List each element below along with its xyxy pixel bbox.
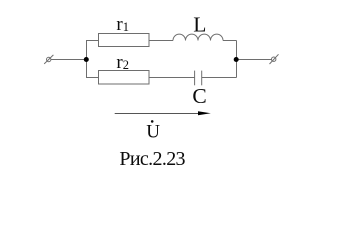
- wire right node to terminal: [236, 59, 272, 61]
- terminal right: [272, 57, 276, 61]
- wire right vertical top: [236, 41, 238, 60]
- wire node to r1: [86, 40, 99, 42]
- wire node to r2: [86, 77, 99, 79]
- inductor L: [173, 34, 223, 40]
- wire left terminal to left node: [51, 59, 87, 61]
- wire left vertical branch split: [86, 41, 88, 78]
- svg-text:C: C: [192, 84, 206, 108]
- wire C to right corner: [202, 77, 237, 79]
- wire r1 to L: [149, 40, 173, 42]
- svg-text:Рис.2.23: Рис.2.23: [119, 148, 185, 170]
- resistor r2: [99, 71, 150, 85]
- terminal left: [47, 57, 51, 61]
- node right junction: [234, 57, 239, 62]
- capacitor C left plate: [194, 71, 196, 86]
- svg-text:L: L: [193, 13, 206, 37]
- wire r2 to C: [149, 77, 195, 79]
- resistor r1: [99, 34, 150, 47]
- node left junction: [84, 57, 89, 62]
- arrow U : line: [115, 113, 206, 115]
- wire right vertical bottom: [236, 60, 238, 78]
- arrow U : head: [198, 111, 211, 115]
- wire L to right corner: [223, 40, 237, 42]
- svg-text:U: U: [146, 122, 160, 143]
- capacitor C right plate: [201, 71, 203, 86]
- dot above U: [151, 120, 154, 123]
